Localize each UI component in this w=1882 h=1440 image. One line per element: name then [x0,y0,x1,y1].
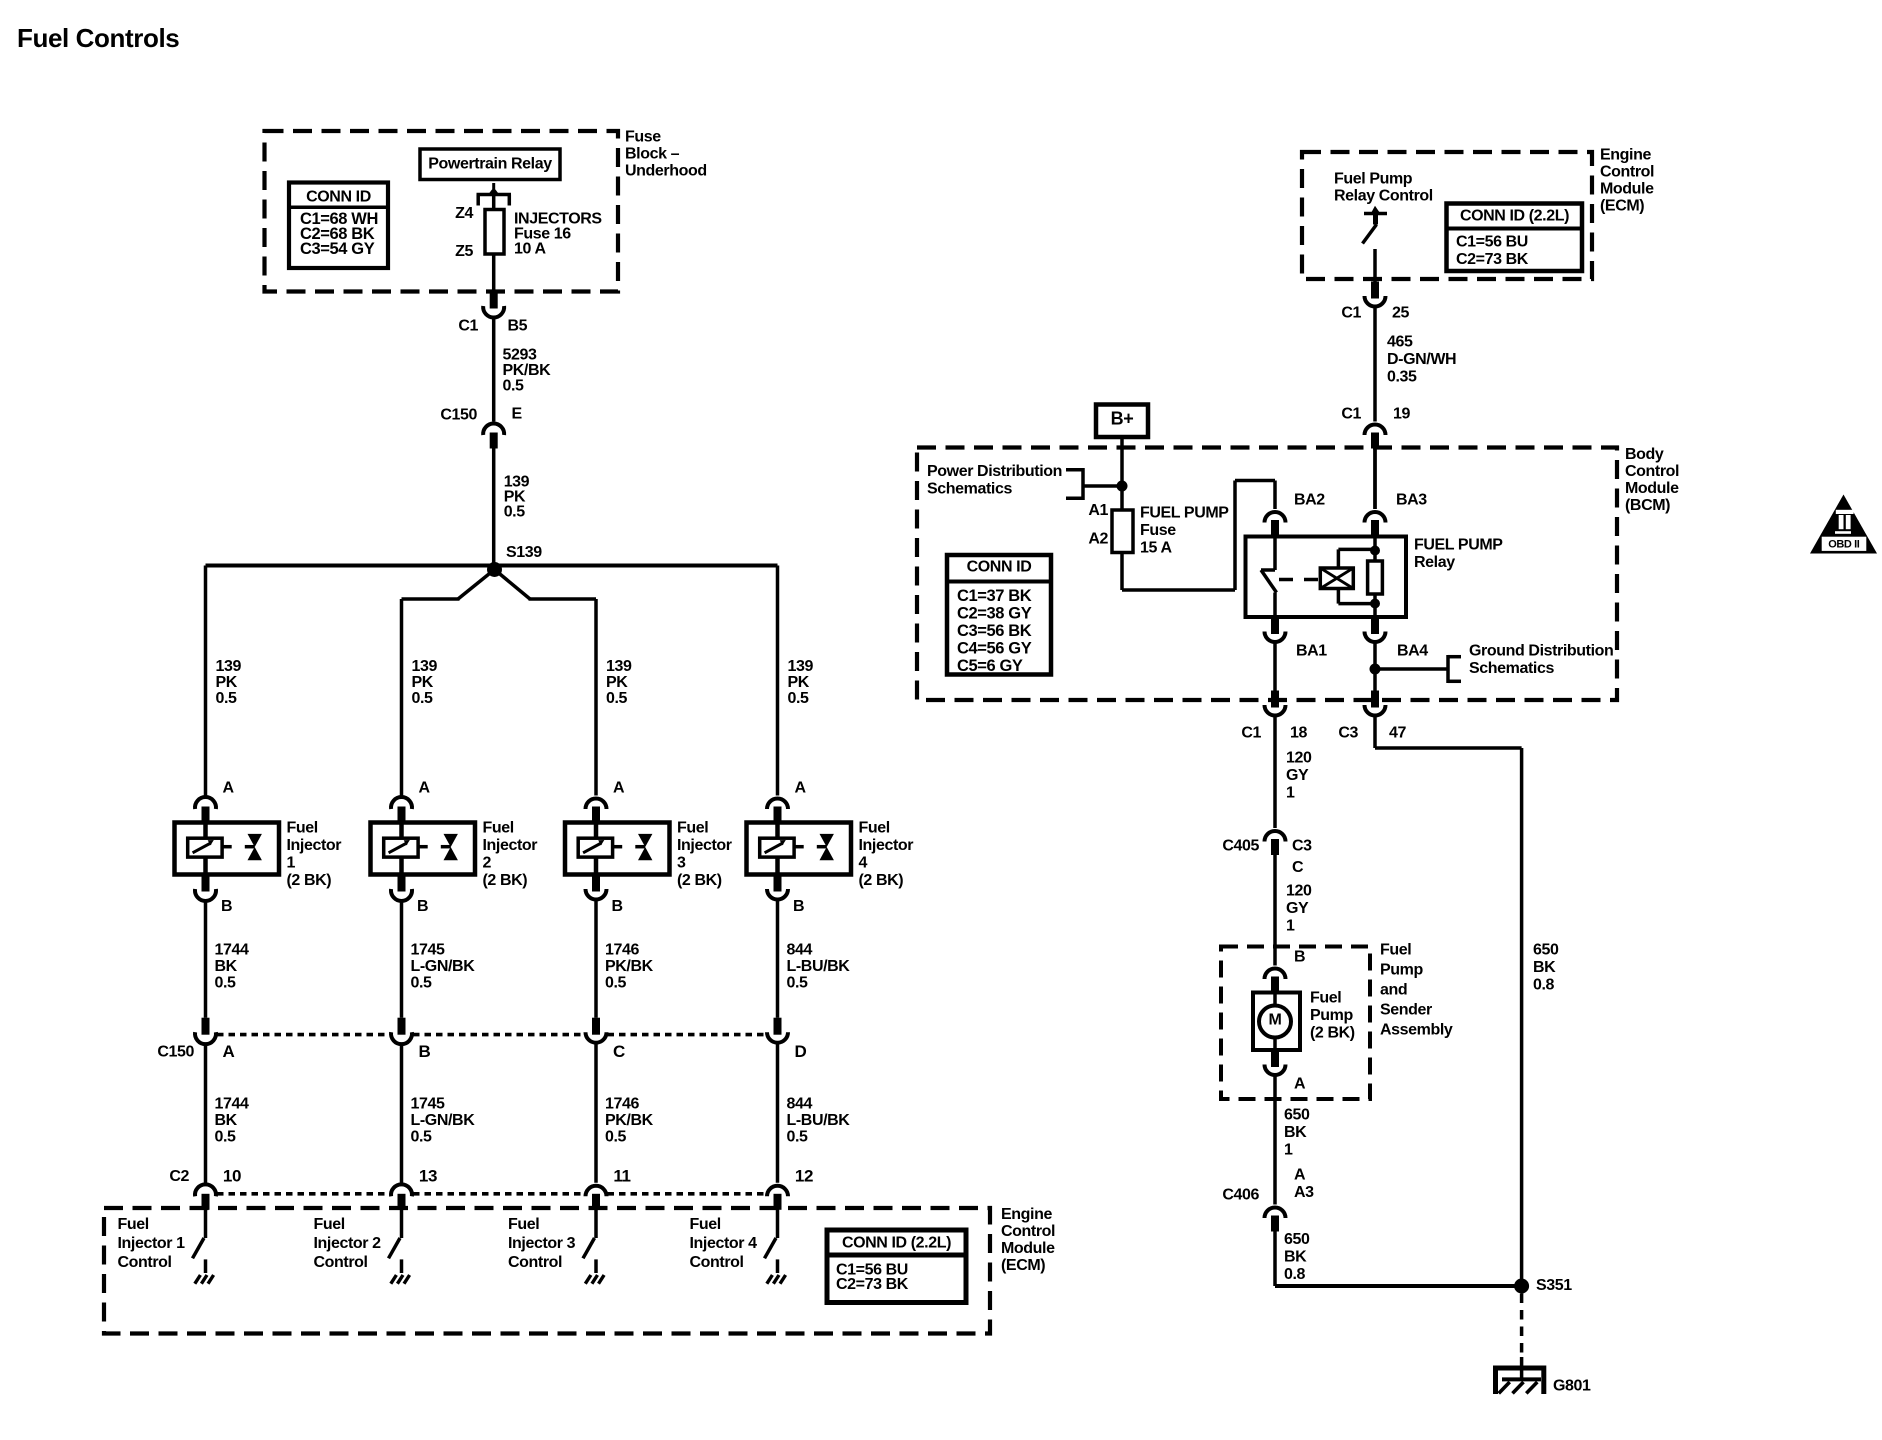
svg-text:D-GN/WH: D-GN/WH [1387,351,1456,368]
svg-text:C3: C3 [1338,725,1358,742]
svg-text:Fuse: Fuse [625,129,661,146]
svg-text:Fuel: Fuel [118,1216,149,1233]
svg-text:11: 11 [613,1167,630,1186]
svg-text:A3: A3 [1294,1184,1314,1201]
svg-text:Schematics: Schematics [927,481,1012,498]
svg-text:BK: BK [215,1112,238,1129]
svg-text:Sender: Sender [1380,1002,1432,1019]
svg-text:12: 12 [795,1167,813,1186]
svg-text:844: 844 [787,942,813,959]
svg-text:Pump: Pump [1380,962,1423,979]
svg-text:0.5: 0.5 [605,975,627,992]
svg-text:1: 1 [1286,918,1295,935]
svg-text:C2=73 BK: C2=73 BK [836,1276,909,1293]
svg-text:PK: PK [788,674,810,691]
svg-text:139: 139 [606,658,632,675]
svg-text:Fuel: Fuel [483,820,514,837]
svg-text:1: 1 [287,855,296,872]
svg-text:Injector 1: Injector 1 [118,1235,186,1252]
svg-text:Ground Distribution: Ground Distribution [1469,643,1613,660]
svg-text:25: 25 [1392,305,1409,322]
svg-text:B: B [221,898,232,915]
svg-text:Injector: Injector [859,837,914,854]
svg-text:BA4: BA4 [1397,643,1428,660]
svg-text:650: 650 [1284,1231,1310,1248]
svg-text:Module: Module [1600,181,1654,198]
svg-text:BA3: BA3 [1396,492,1427,509]
svg-text:L-GN/BK: L-GN/BK [411,1112,476,1129]
svg-text:B5: B5 [508,318,528,335]
svg-text:139: 139 [788,658,814,675]
svg-text:0.5: 0.5 [788,690,810,707]
svg-text:1: 1 [1286,785,1295,802]
svg-text:Fuel: Fuel [314,1216,345,1233]
svg-text:Fuel: Fuel [508,1216,539,1233]
svg-text:0.5: 0.5 [503,378,525,395]
svg-text:B: B [793,898,804,915]
svg-text:BA1: BA1 [1296,643,1327,660]
svg-text:Fuse: Fuse [1140,522,1176,539]
svg-text:BK: BK [1533,959,1556,976]
svg-text:A1: A1 [1088,502,1108,519]
svg-text:S351: S351 [1536,1277,1572,1294]
svg-text:C3=56 BK: C3=56 BK [957,622,1032,640]
svg-text:B: B [419,1042,431,1061]
svg-text:C405: C405 [1222,838,1259,855]
svg-text:C4=56 GY: C4=56 GY [957,639,1032,657]
svg-text:CONN ID (2.2L): CONN ID (2.2L) [1460,208,1569,225]
svg-text:L-BU/BK: L-BU/BK [787,958,851,975]
svg-text:Z5: Z5 [455,243,473,260]
svg-text:844: 844 [787,1096,813,1113]
svg-text:GY: GY [1286,767,1309,784]
svg-text:Engine: Engine [1600,147,1651,164]
svg-text:FUEL PUMP: FUEL PUMP [1140,505,1229,522]
svg-text:0.5: 0.5 [787,975,809,992]
svg-text:Fuel: Fuel [287,820,318,837]
svg-text:(ECM): (ECM) [1001,1257,1045,1274]
svg-text:Control: Control [1001,1223,1055,1240]
svg-text:Control: Control [1625,463,1679,480]
svg-text:A: A [223,780,235,797]
svg-text:0.8: 0.8 [1284,1266,1306,1283]
svg-text:Assembly: Assembly [1380,1022,1453,1039]
svg-text:Control: Control [508,1254,562,1271]
svg-text:Engine: Engine [1001,1206,1052,1223]
svg-text:Injector: Injector [287,837,342,854]
svg-text:0.35: 0.35 [1387,369,1417,386]
svg-text:PK/BK: PK/BK [605,958,654,975]
svg-text:A: A [223,1042,235,1061]
svg-text:C2: C2 [169,1168,189,1185]
svg-text:47: 47 [1389,725,1406,742]
svg-text:0.5: 0.5 [787,1129,809,1146]
svg-text:E: E [512,406,523,423]
svg-text:0.5: 0.5 [215,1129,237,1146]
svg-text:Injector: Injector [677,837,732,854]
svg-text:C5=6 GY: C5=6 GY [957,657,1023,675]
svg-text:Fuel Controls: Fuel Controls [17,23,179,53]
svg-text:465: 465 [1387,334,1413,351]
svg-text:G801: G801 [1553,1378,1591,1395]
svg-text:C2=73 BK: C2=73 BK [1456,251,1529,268]
svg-text:PK/BK: PK/BK [503,362,552,379]
svg-text:Schematics: Schematics [1469,660,1554,677]
svg-text:0.5: 0.5 [606,690,628,707]
svg-text:0.8: 0.8 [1533,977,1555,994]
svg-text:A: A [419,780,431,797]
svg-text:13: 13 [419,1167,437,1186]
svg-text:M: M [1269,1012,1282,1029]
svg-text:Module: Module [1001,1240,1055,1257]
svg-text:(2 BK): (2 BK) [859,872,904,889]
svg-text:(BCM): (BCM) [1625,497,1670,514]
svg-text:18: 18 [1290,725,1307,742]
svg-text:650: 650 [1284,1107,1310,1124]
svg-text:Z4: Z4 [455,205,473,222]
svg-text:10 A: 10 A [514,241,546,258]
svg-text:D: D [795,1042,807,1061]
svg-text:650: 650 [1533,942,1559,959]
svg-text:C1=56 BU: C1=56 BU [1456,234,1528,251]
svg-text:Relay: Relay [1414,554,1455,571]
svg-text:C1: C1 [458,318,478,335]
svg-text:(2 BK): (2 BK) [1310,1025,1355,1042]
svg-text:B: B [1294,949,1305,966]
svg-text:Control: Control [118,1254,172,1271]
svg-text:Injector 3: Injector 3 [508,1235,576,1252]
svg-text:C3=54 GY: C3=54 GY [300,240,375,258]
svg-text:FUEL PUMP: FUEL PUMP [1414,537,1503,554]
svg-text:Fuel Pump: Fuel Pump [1334,171,1413,188]
svg-text:C2=38 GY: C2=38 GY [957,604,1032,622]
svg-text:(ECM): (ECM) [1600,198,1644,215]
svg-text:Fuel: Fuel [859,820,890,837]
svg-text:(2 BK): (2 BK) [677,872,722,889]
svg-text:A: A [613,780,625,797]
svg-text:BK: BK [1284,1249,1307,1266]
svg-text:0.5: 0.5 [412,690,434,707]
svg-text:C1: C1 [1341,406,1361,423]
svg-text:1: 1 [1284,1142,1293,1159]
svg-text:C406: C406 [1222,1187,1259,1204]
svg-text:1745: 1745 [411,1096,445,1113]
svg-text:B: B [417,898,428,915]
svg-text:0.5: 0.5 [216,690,238,707]
svg-text:S139: S139 [506,544,542,561]
svg-text:Control: Control [1600,164,1654,181]
svg-text:C1=37 BK: C1=37 BK [957,587,1032,605]
svg-text:139: 139 [412,658,438,675]
svg-text:CONN ID: CONN ID [967,559,1032,576]
svg-text:CONN ID (2.2L): CONN ID (2.2L) [842,1235,951,1252]
svg-text:2: 2 [483,855,492,872]
svg-text:Module: Module [1625,480,1679,497]
svg-text:and: and [1380,982,1407,999]
svg-text:Pump: Pump [1310,1007,1353,1024]
svg-text:Body: Body [1625,446,1664,463]
svg-text:Relay Control: Relay Control [1334,188,1433,205]
svg-text:B+: B+ [1111,408,1134,428]
svg-text:Fuel: Fuel [677,820,708,837]
svg-text:A: A [1294,1076,1306,1093]
svg-text:Injector 2: Injector 2 [314,1235,382,1252]
svg-text:Underhood: Underhood [625,163,707,180]
svg-text:PK: PK [216,674,238,691]
svg-text:GY: GY [1286,900,1309,917]
svg-text:Injector: Injector [483,837,538,854]
svg-text:1744: 1744 [215,1096,249,1113]
svg-text:120: 120 [1286,883,1312,900]
svg-text:1746: 1746 [605,1096,639,1113]
svg-text:15 A: 15 A [1140,540,1172,557]
svg-text:5293: 5293 [503,347,537,364]
svg-text:1745: 1745 [411,942,445,959]
svg-text:CONN ID: CONN ID [306,189,371,206]
svg-text:0.5: 0.5 [504,504,526,521]
svg-text:L-BU/BK: L-BU/BK [787,1112,851,1129]
svg-text:(2 BK): (2 BK) [483,872,528,889]
svg-text:Injector 4: Injector 4 [690,1235,758,1252]
svg-text:C1: C1 [1341,305,1361,322]
svg-text:BK: BK [215,958,238,975]
svg-text:BK: BK [1284,1124,1307,1141]
svg-text:4: 4 [859,855,868,872]
svg-text:Fuel: Fuel [1310,990,1341,1007]
svg-text:1744: 1744 [215,942,249,959]
svg-text:0.5: 0.5 [411,975,433,992]
svg-text:Fuel: Fuel [690,1216,721,1233]
svg-text:19: 19 [1393,406,1410,423]
svg-text:10: 10 [223,1167,241,1186]
svg-text:Powertrain Relay: Powertrain Relay [428,156,552,173]
svg-text:C: C [1292,859,1304,876]
svg-text:1746: 1746 [605,942,639,959]
svg-text:(2 BK): (2 BK) [287,872,332,889]
svg-text:Fuel: Fuel [1380,942,1411,959]
svg-text:Block –: Block – [625,146,680,163]
svg-text:L-GN/BK: L-GN/BK [411,958,476,975]
svg-text:B: B [612,898,623,915]
svg-text:139: 139 [216,658,242,675]
svg-text:0.5: 0.5 [411,1129,433,1146]
svg-text:Control: Control [314,1254,368,1271]
svg-text:0.5: 0.5 [605,1129,627,1146]
svg-text:PK: PK [412,674,434,691]
svg-text:120: 120 [1286,750,1312,767]
svg-text:PK/BK: PK/BK [605,1112,654,1129]
svg-text:3: 3 [677,855,686,872]
svg-text:A2: A2 [1088,531,1108,548]
svg-text:C1: C1 [1241,725,1261,742]
svg-text:PK: PK [606,674,628,691]
svg-text:0.5: 0.5 [215,975,237,992]
svg-text:OBD II: OBD II [1828,539,1860,551]
svg-text:C150: C150 [157,1044,194,1061]
svg-text:BA2: BA2 [1294,492,1325,509]
svg-text:Control: Control [690,1254,744,1271]
svg-text:C3: C3 [1292,838,1312,855]
svg-text:Power Distribution: Power Distribution [927,463,1062,480]
svg-text:C150: C150 [440,407,477,424]
svg-text:A: A [1294,1167,1306,1184]
svg-text:C: C [613,1042,625,1061]
svg-text:A: A [795,780,807,797]
